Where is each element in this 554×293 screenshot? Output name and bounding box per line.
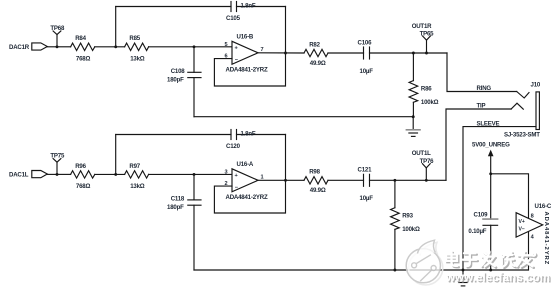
svg-text:13kΩ: 13kΩ: [130, 183, 145, 190]
svg-text:V−: V−: [519, 227, 525, 233]
power 5V00_UNREG: [488, 150, 494, 174]
wire ground rail ch2: [194, 232, 529, 270]
svg-text:www.elecfans.com: www.elecfans.com: [445, 272, 550, 284]
svg-text:768Ω: 768Ω: [76, 56, 91, 63]
connector DAC1R: [32, 43, 57, 50]
svg-text:C121: C121: [358, 167, 373, 174]
svg-text:U16-A: U16-A: [237, 161, 254, 168]
svg-text:3: 3: [225, 169, 228, 175]
jack J10 body: [536, 92, 539, 130]
svg-text:C109: C109: [474, 212, 489, 219]
wire feedback riser ch1: [115, 7, 117, 47]
wire feedback loop U16-B pin6: [214, 7, 285, 87]
svg-text:C118: C118: [171, 196, 185, 203]
wire DAC1L node to R96: [57, 173, 71, 175]
test point TP65: [423, 36, 431, 54]
node 5V junction: [489, 172, 492, 175]
wire R97 to op-amp pin3: [149, 173, 232, 175]
capacitor C118: [188, 174, 201, 270]
svg-text:ADA4841-2YRZ: ADA4841-2YRZ: [226, 67, 268, 74]
wire C108 ground rail ch1: [194, 116, 413, 118]
capacitor C106: [364, 47, 370, 59]
wire R98 to C121: [328, 179, 364, 181]
wire R82 to C106: [328, 52, 364, 54]
node A junction: [114, 45, 117, 48]
svg-text:TIP: TIP: [477, 102, 486, 109]
node SLEEVE rail junction: [462, 269, 465, 272]
op-amp U16-C power symbol: [516, 213, 543, 237]
svg-text:1: 1: [261, 175, 264, 181]
resistor R98: [304, 177, 328, 184]
node output U16-A junction: [284, 179, 287, 182]
resistor R86: [409, 53, 418, 117]
op-amp U16-B: [232, 41, 258, 64]
svg-text:13kΩ: 13kΩ: [130, 56, 145, 63]
resistor R97: [125, 171, 149, 178]
svg-text:OUT1R: OUT1R: [412, 23, 432, 30]
svg-text:7: 7: [261, 47, 264, 53]
svg-text:C120: C120: [226, 143, 241, 150]
svg-text:1.8nF: 1.8nF: [241, 130, 256, 137]
svg-text:4: 4: [531, 234, 535, 240]
svg-text:R86: R86: [421, 85, 432, 92]
resistor R82: [304, 49, 328, 56]
svg-text:49.9Ω: 49.9Ω: [310, 187, 326, 194]
test point TP75: [53, 159, 61, 176]
capacitor C121: [364, 174, 370, 186]
capacitor C120: [231, 130, 237, 140]
wire R85 to op-amp pin5: [149, 46, 232, 48]
wire feedback top ch2: [116, 134, 231, 136]
svg-text:TP76: TP76: [420, 158, 435, 165]
svg-text:5: 5: [225, 42, 228, 48]
svg-text:V+: V+: [519, 219, 525, 225]
test point TP76: [422, 164, 430, 182]
node rail junction ch1: [412, 115, 415, 118]
wire feedback top ch1: [116, 6, 231, 8]
svg-text:SLEEVE: SLEEVE: [477, 120, 500, 127]
svg-text:10µF: 10µF: [360, 68, 374, 75]
capacitor C108: [188, 47, 201, 117]
svg-text:ADA4841-2YRZ: ADA4841-2YRZ: [543, 212, 549, 266]
svg-text:10µF: 10µF: [360, 195, 374, 202]
wire R96 to node B: [95, 173, 125, 175]
resistor R85: [125, 43, 149, 50]
wire R84 to node A: [95, 46, 125, 48]
jack contact RING: [517, 92, 529, 99]
resistor R96: [71, 171, 95, 178]
svg-text:180pF: 180pF: [167, 204, 184, 211]
test point TP68: [53, 31, 61, 48]
svg-text:R82: R82: [309, 41, 320, 48]
node R93 junction: [393, 179, 396, 182]
svg-text:R85: R85: [129, 35, 140, 42]
svg-text:TP68: TP68: [50, 25, 65, 32]
svg-text:100kΩ: 100kΩ: [421, 99, 439, 106]
svg-text:0.10µF: 0.10µF: [468, 228, 486, 235]
node output U16-B junction: [284, 52, 287, 55]
svg-text:DAC1R: DAC1R: [9, 44, 30, 51]
node R86 junction: [412, 52, 415, 55]
wire feedback riser ch2: [115, 135, 117, 175]
node B junction: [114, 173, 117, 176]
svg-text:R96: R96: [75, 163, 86, 170]
capacitor C105: [231, 2, 237, 12]
node C108 junction: [193, 45, 196, 48]
ground ch2: [456, 270, 470, 286]
svg-text:R84: R84: [75, 35, 86, 42]
wire 5V to U16-C pin8: [491, 174, 529, 219]
svg-text:U16-B: U16-B: [237, 34, 254, 41]
svg-text:SJ-3523-SMT: SJ-3523-SMT: [504, 131, 540, 138]
svg-text:TP65: TP65: [420, 30, 435, 37]
resistor R93: [391, 180, 400, 270]
svg-text:TP75: TP75: [50, 152, 65, 159]
svg-text:J10: J10: [531, 81, 541, 88]
svg-text:5V00_UNREG: 5V00_UNREG: [472, 141, 510, 148]
wire DAC1R node to R84: [57, 46, 71, 48]
op-amp U16-A: [232, 169, 258, 192]
svg-text:49.9Ω: 49.9Ω: [310, 60, 326, 67]
svg-text:RING: RING: [477, 85, 492, 92]
svg-text:ADA4841-2YRZ: ADA4841-2YRZ: [226, 194, 268, 201]
wire OUT1L to TIP: [446, 109, 511, 180]
connector DAC1L: [32, 171, 57, 178]
wire feedback loop U16-A pin2: [214, 135, 285, 214]
svg-text:R97: R97: [129, 163, 140, 170]
node C118 junction: [193, 173, 196, 176]
svg-text:DAC1L: DAC1L: [9, 172, 29, 179]
svg-text:R98: R98: [309, 169, 320, 176]
svg-text:R93: R93: [402, 212, 413, 219]
svg-text:1.8nF: 1.8nF: [241, 2, 256, 9]
svg-text:8: 8: [531, 213, 534, 219]
wire op-amp U16-A output: [258, 179, 304, 181]
node rail junction R93: [393, 269, 396, 272]
wire OUT1R to RING: [447, 53, 517, 92]
jack contact TIP: [511, 103, 523, 109]
svg-text:100kΩ: 100kΩ: [402, 226, 420, 233]
wire C106 to corner: [370, 52, 448, 54]
node C109 rail junction: [489, 269, 492, 272]
svg-text:U16-C: U16-C: [535, 203, 552, 210]
wire SLEEVE: [463, 127, 536, 270]
svg-text:768Ω: 768Ω: [76, 183, 91, 190]
svg-text:C105: C105: [226, 15, 241, 22]
svg-text:C108: C108: [171, 68, 186, 75]
wire C121 to corner: [370, 179, 447, 181]
resistor R84: [71, 43, 95, 50]
svg-text:180pF: 180pF: [167, 77, 184, 84]
watermark text elecfans: [446, 252, 536, 269]
capacitor C109: [483, 174, 498, 270]
ground ch1: [406, 117, 420, 137]
watermark logo circle: [406, 240, 443, 285]
svg-text:C106: C106: [358, 39, 373, 46]
svg-text:OUT1L: OUT1L: [412, 150, 431, 157]
wire op-amp U16-B output: [258, 52, 304, 54]
